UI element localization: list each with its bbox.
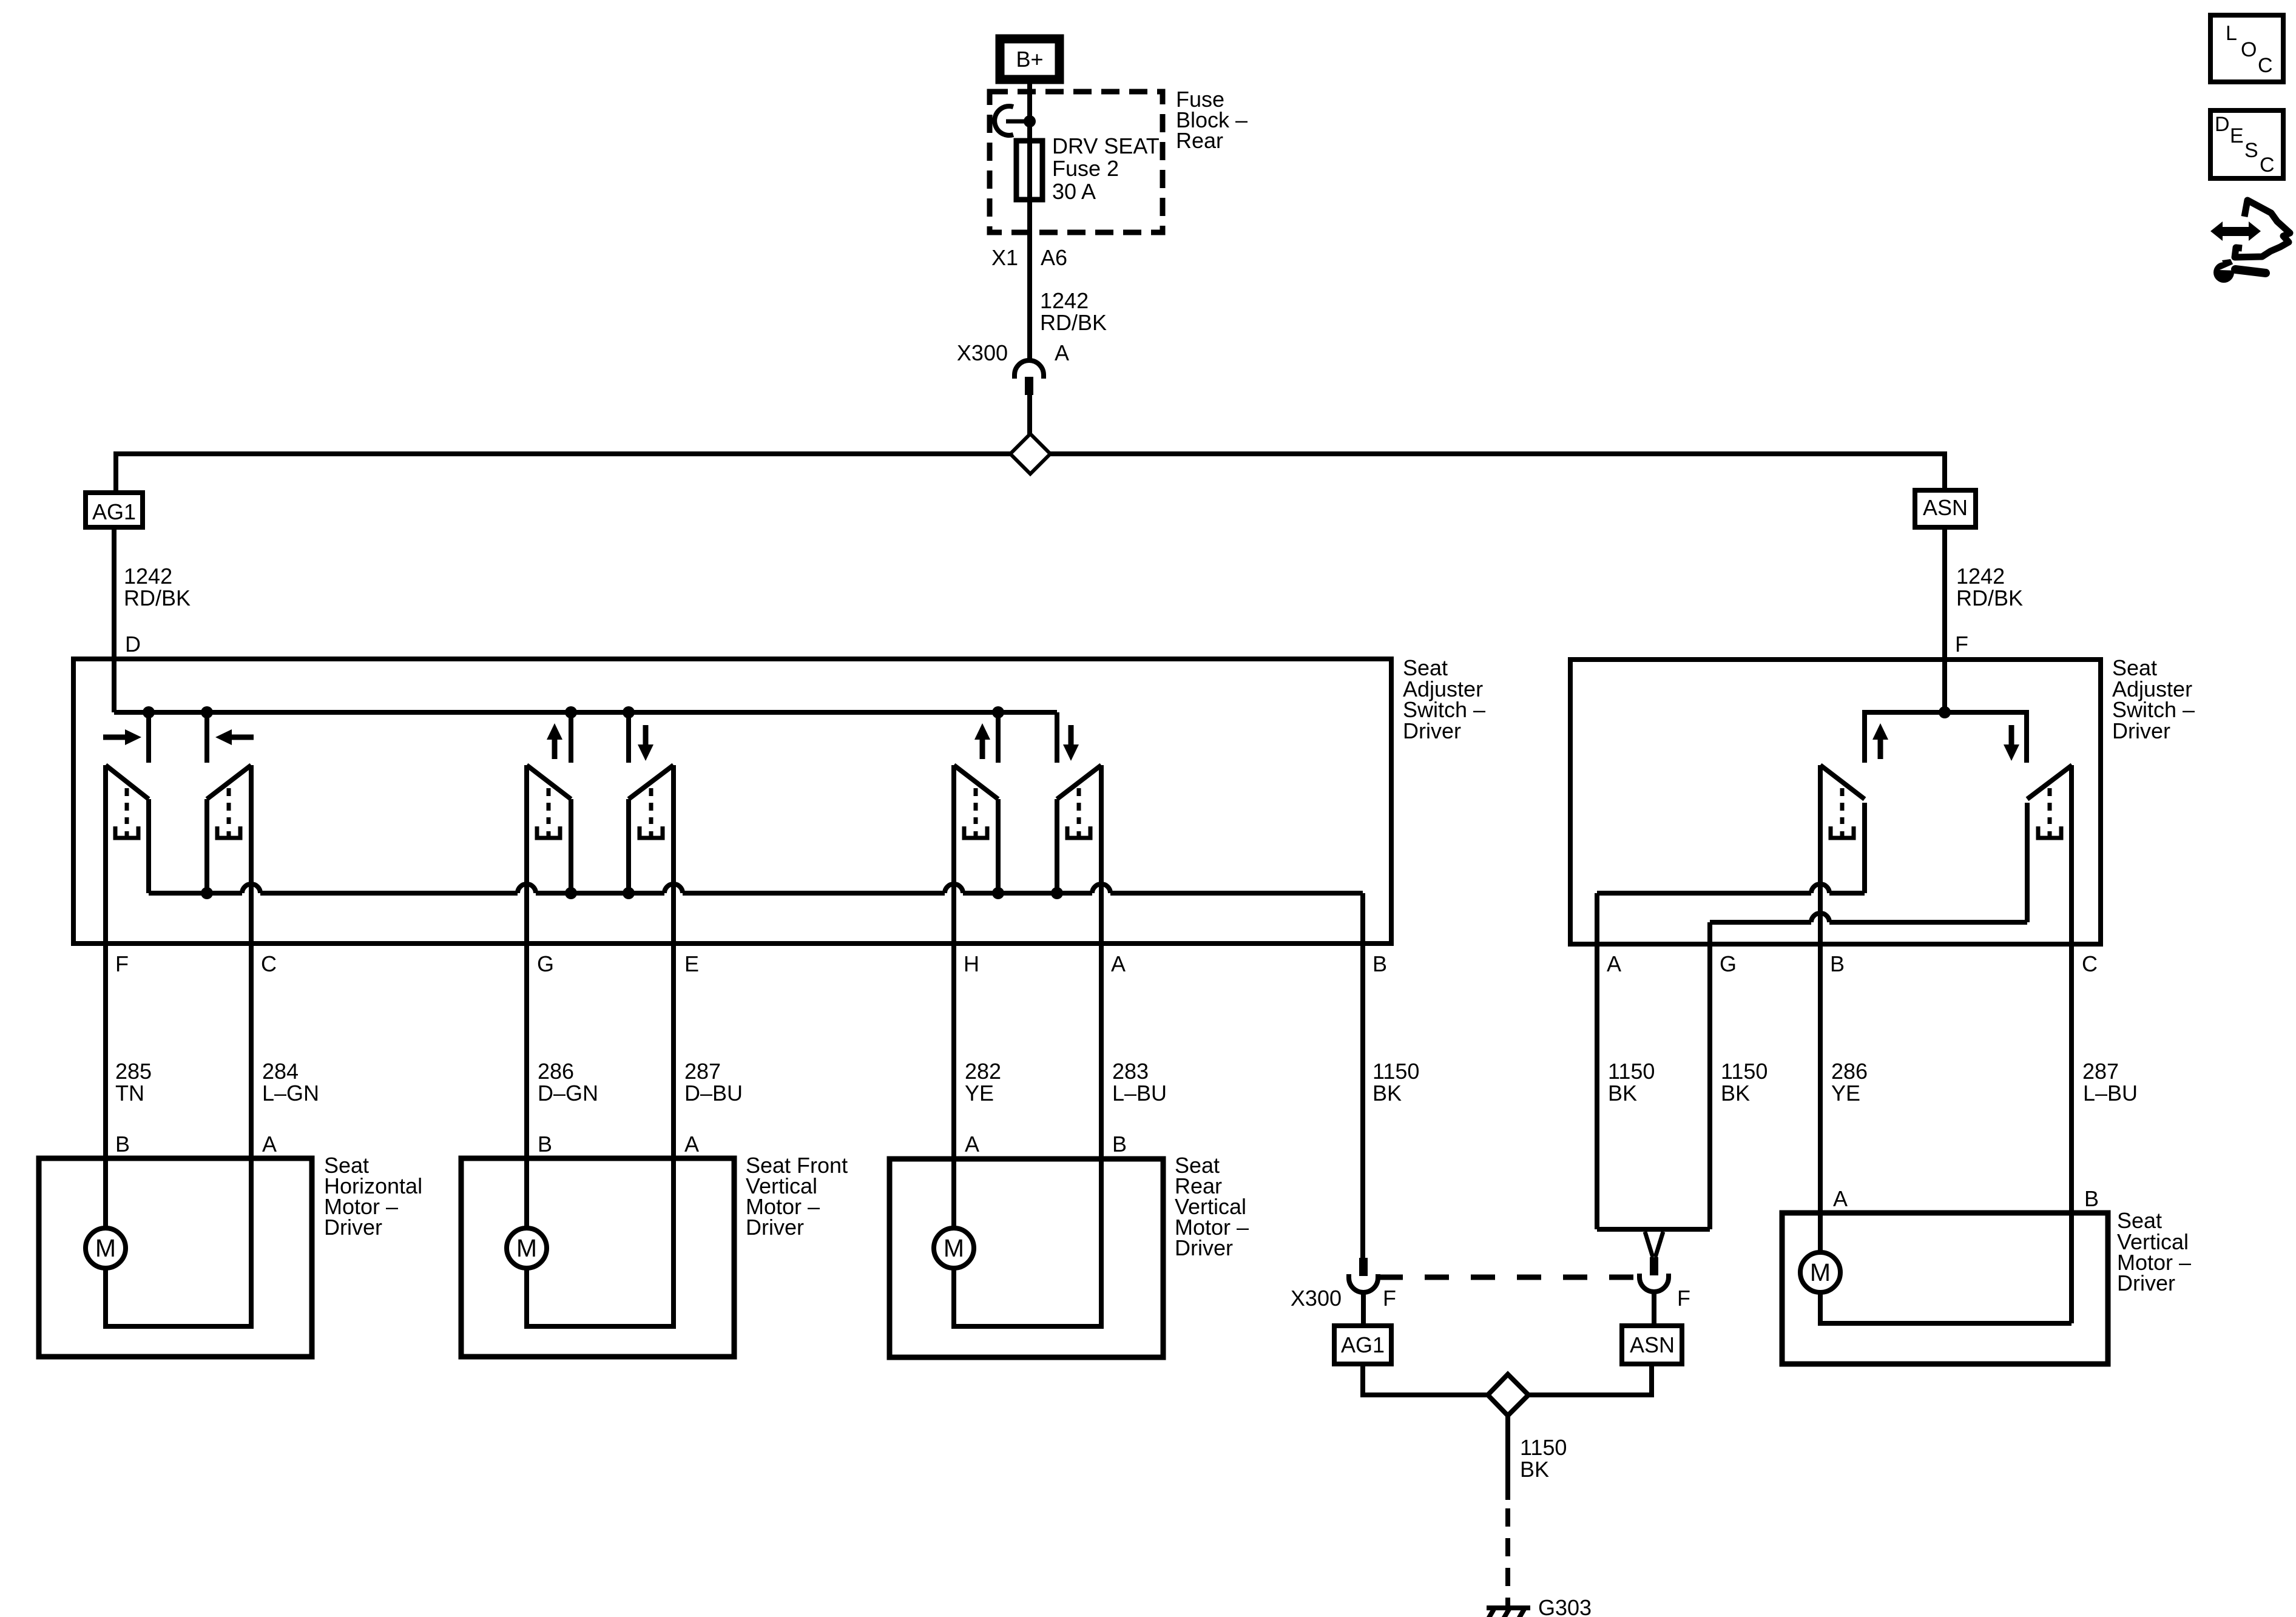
wire AG1 to splice <box>1363 1364 1488 1395</box>
wire B+ to fuse block <box>1027 84 1032 121</box>
switch contact right box left <box>1820 765 1865 799</box>
svg-text:C: C <box>2082 951 2098 976</box>
svg-text:B: B <box>538 1132 552 1156</box>
main feed horizontal wire <box>116 451 1945 456</box>
wire B ground side <box>1360 893 1365 1258</box>
svg-text:G303: G303 <box>1538 1595 1592 1617</box>
motor M2 wiring <box>527 1158 674 1326</box>
svg-text:E: E <box>684 951 699 976</box>
switch contact pair2 left <box>527 765 571 799</box>
wire to ASN <box>1942 451 1947 490</box>
switch common bus to B <box>149 891 242 896</box>
LOC legend box <box>2210 15 2283 82</box>
seat adjuster switch driver box left <box>73 659 1391 944</box>
wire A to contact <box>1597 891 1811 896</box>
wire to ASN bottom <box>1652 1292 1656 1326</box>
svg-text:X300: X300 <box>1291 1286 1342 1311</box>
bus stub 5 <box>996 712 1001 763</box>
wire C right box <box>2069 765 2074 1323</box>
seat adjuster switch driver box right <box>1570 660 2101 944</box>
svg-text:M: M <box>1810 1258 1831 1286</box>
svg-text:A: A <box>262 1132 277 1156</box>
wire through fuse <box>1027 121 1032 231</box>
svg-text:1150: 1150 <box>1520 1435 1567 1460</box>
svg-text:S: S <box>2244 139 2258 162</box>
svg-text:A: A <box>684 1132 699 1156</box>
adjust icon component outline <box>2235 200 2290 257</box>
svg-text:X300: X300 <box>957 340 1008 365</box>
svg-text:A: A <box>1833 1186 1848 1211</box>
svg-text:L–BU: L–BU <box>2083 1081 2138 1106</box>
svg-text:B: B <box>1830 951 1845 976</box>
adjust icon wrench <box>2213 262 2234 283</box>
svg-text:287: 287 <box>2082 1059 2119 1084</box>
right contact inner wire right <box>2025 803 2030 922</box>
DESC legend box <box>2210 110 2283 178</box>
motor M3 wiring <box>954 1159 1101 1326</box>
dashed wire to G303 <box>1505 1508 1510 1607</box>
svg-text:L–BU: L–BU <box>1112 1081 1167 1106</box>
switch feed bus <box>114 710 1057 715</box>
seat rear vertical motor box <box>890 1159 1163 1357</box>
contact inner wire 6 <box>1055 799 1059 893</box>
ground splice diamond <box>1488 1374 1528 1416</box>
right contact inner wire left <box>1862 803 1867 893</box>
svg-text:G: G <box>537 951 554 976</box>
svg-text:1242: 1242 <box>124 564 172 589</box>
connector AG1 top <box>86 493 143 527</box>
svg-text:L: L <box>2226 22 2237 45</box>
contact inner wire 1 <box>146 799 151 893</box>
svg-text:F: F <box>1955 632 1968 657</box>
bus stub 2 <box>204 712 209 763</box>
bus stub 4 <box>626 712 631 763</box>
switch contact right box right <box>2027 765 2072 799</box>
fuse DRV SEAT Fuse 2 30A <box>1016 141 1042 200</box>
svg-text:ASN: ASN <box>1630 1332 1675 1357</box>
wire splice to ground <box>1505 1416 1510 1500</box>
svg-text:Driver: Driver <box>1175 1235 1233 1260</box>
contact inner wire 4 <box>626 799 631 893</box>
svg-text:D–GN: D–GN <box>538 1081 598 1106</box>
svg-text:F: F <box>1383 1286 1396 1311</box>
wire AG1 to switch D <box>112 527 116 712</box>
motor M3 circle <box>934 1228 974 1268</box>
svg-text:A: A <box>1111 951 1126 976</box>
svg-text:Rear: Rear <box>1176 128 1223 153</box>
seat vertical motor box <box>1782 1213 2108 1364</box>
svg-text:1150: 1150 <box>1721 1059 1768 1084</box>
svg-text:BK: BK <box>1373 1081 1402 1106</box>
svg-text:YE: YE <box>965 1081 994 1106</box>
motor M4 circle <box>1800 1252 1840 1292</box>
wire F to motor <box>103 765 108 1228</box>
svg-text:Driver: Driver <box>324 1215 382 1240</box>
connector ASN top <box>1915 490 1976 527</box>
svg-text:1150: 1150 <box>1373 1059 1419 1084</box>
wire ASN to splice <box>1528 1364 1652 1395</box>
svg-text:F: F <box>115 951 129 976</box>
svg-text:H: H <box>964 951 979 976</box>
connector ASN bottom <box>1622 1326 1682 1364</box>
svg-text:286: 286 <box>538 1059 574 1084</box>
arrow left (seat back) <box>231 735 254 740</box>
connector AG1 bottom <box>1334 1326 1391 1364</box>
svg-text:E: E <box>2230 124 2244 147</box>
svg-text:B: B <box>115 1132 130 1156</box>
svg-text:B+: B+ <box>1016 47 1043 72</box>
svg-text:A: A <box>965 1132 979 1156</box>
motor M4 wiring <box>1820 1292 2071 1323</box>
connector X300 pin F left <box>1359 1258 1368 1276</box>
fuse clip and node <box>994 106 1013 135</box>
contact inner wire 2 <box>204 799 209 893</box>
wire X300 to splice <box>1027 395 1032 437</box>
arrow down rear vertical <box>1069 725 1074 745</box>
svg-text:B: B <box>2084 1186 2099 1211</box>
arrow right (seat forward) <box>103 735 126 740</box>
svg-text:Driver: Driver <box>2112 718 2170 743</box>
contact inner wire 3 <box>569 799 573 893</box>
svg-text:C: C <box>2260 154 2275 177</box>
connector X300 pin F right <box>1650 1257 1658 1275</box>
svg-text:286: 286 <box>1831 1059 1868 1084</box>
svg-text:M: M <box>95 1234 116 1262</box>
svg-text:1242: 1242 <box>1040 288 1089 313</box>
svg-text:A: A <box>1055 340 1069 365</box>
wire ASN to switch F <box>1942 527 1947 712</box>
svg-text:AG1: AG1 <box>92 499 136 524</box>
adjust icon double arrow <box>2210 221 2261 241</box>
arrow up rear vertical <box>980 739 985 759</box>
svg-text:TN: TN <box>115 1081 144 1106</box>
splice funnel A G wires <box>1597 1227 1710 1232</box>
wire to AG1 bottom <box>1361 1292 1366 1326</box>
svg-text:283: 283 <box>1112 1059 1149 1084</box>
svg-text:RD/BK: RD/BK <box>124 586 191 610</box>
svg-text:284: 284 <box>262 1059 299 1084</box>
svg-text:282: 282 <box>965 1059 1001 1084</box>
splice diamond <box>1010 434 1050 474</box>
svg-text:AG1: AG1 <box>1341 1332 1385 1357</box>
svg-text:Driver: Driver <box>1403 718 1461 743</box>
arrow down front vertical <box>643 725 649 745</box>
wire A to motor <box>1099 765 1104 1158</box>
switch contact pair2 right <box>629 765 674 799</box>
svg-text:DRV SEAT: DRV SEAT <box>1052 133 1160 158</box>
arrow down vertical motor <box>2009 725 2014 745</box>
seat horizontal motor box <box>39 1158 312 1357</box>
switch contact pair3 left <box>954 765 998 799</box>
svg-text:C: C <box>261 951 277 976</box>
switch contact pair3 right <box>1057 765 1101 799</box>
svg-text:D–BU: D–BU <box>684 1081 743 1106</box>
svg-text:D: D <box>2215 113 2230 136</box>
X300 dashed connector line <box>1379 1275 1638 1280</box>
wire G to contact <box>1710 920 1811 925</box>
svg-text:G: G <box>1720 951 1737 976</box>
svg-text:Driver: Driver <box>2117 1271 2175 1295</box>
wire B right box <box>1818 765 1823 1252</box>
motor M1 wiring <box>106 1158 251 1326</box>
svg-text:A: A <box>1607 951 1621 976</box>
svg-text:X1: X1 <box>991 245 1018 270</box>
switch contact pair1 right <box>207 765 251 799</box>
wire C to motor <box>249 765 254 1158</box>
svg-text:1242: 1242 <box>1956 564 2005 589</box>
svg-text:RD/BK: RD/BK <box>1956 586 2023 610</box>
power feed B+ <box>1000 39 1059 79</box>
svg-text:A6: A6 <box>1041 245 1067 270</box>
svg-text:BK: BK <box>1608 1081 1637 1106</box>
seat front vertical motor box <box>461 1158 734 1357</box>
svg-text:Fuse 2: Fuse 2 <box>1052 156 1119 181</box>
svg-text:YE: YE <box>1831 1081 1860 1106</box>
contact inner wire 5 <box>996 799 1001 893</box>
arrow up front vertical <box>552 739 558 759</box>
switch contact pair1 left <box>106 765 149 799</box>
fuse block rear dashed outline <box>990 92 1163 232</box>
svg-text:B: B <box>1112 1132 1127 1156</box>
svg-text:BK: BK <box>1721 1081 1750 1106</box>
bus stub 1 <box>146 712 151 763</box>
svg-text:M: M <box>516 1234 537 1262</box>
svg-text:BK: BK <box>1520 1457 1549 1482</box>
wire to AG1 <box>113 451 118 493</box>
svg-text:1150: 1150 <box>1608 1059 1655 1084</box>
wire G to motor <box>524 765 529 1228</box>
wire fuse to X300 <box>1027 231 1032 362</box>
svg-text:O: O <box>2241 38 2257 61</box>
right switch feed bus <box>1865 712 2027 763</box>
wire E to motor <box>671 765 676 1158</box>
ground G303 symbol <box>1487 1605 1530 1610</box>
svg-text:F: F <box>1677 1286 1690 1311</box>
svg-text:D: D <box>125 632 141 657</box>
svg-text:287: 287 <box>684 1059 721 1084</box>
motor M1 circle <box>86 1228 126 1268</box>
svg-text:ASN: ASN <box>1923 495 1968 520</box>
svg-text:M: M <box>944 1234 964 1262</box>
arrow up vertical motor <box>1878 739 1883 759</box>
svg-text:30 A: 30 A <box>1052 179 1096 204</box>
svg-text:285: 285 <box>115 1059 152 1084</box>
wire H to motor <box>951 765 956 1228</box>
svg-text:Driver: Driver <box>746 1215 804 1240</box>
bus stub 3 <box>569 712 573 763</box>
svg-text:L–GN: L–GN <box>262 1081 319 1106</box>
svg-text:C: C <box>2258 54 2273 77</box>
motor M2 circle <box>507 1228 547 1268</box>
svg-text:RD/BK: RD/BK <box>1040 310 1107 335</box>
bus stub 6 <box>1055 712 1059 763</box>
svg-text:B: B <box>1373 951 1387 976</box>
